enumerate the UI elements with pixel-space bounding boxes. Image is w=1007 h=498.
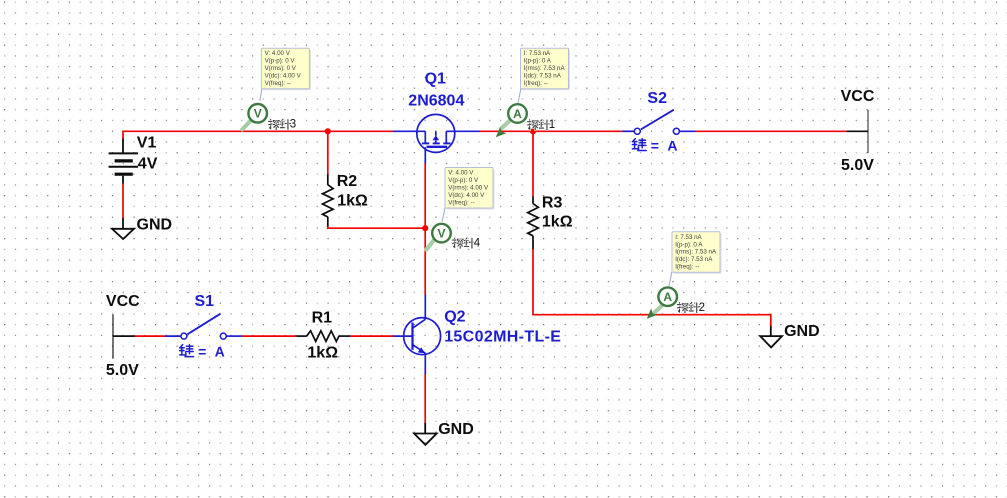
- svg-text:= A: = A: [651, 137, 680, 153]
- svg-text:Q2: Q2: [444, 308, 465, 325]
- wire R3 bottom to GND: [533, 249, 771, 327]
- svg-text:1kΩ: 1kΩ: [337, 193, 368, 210]
- svg-text:V(rms): 4.00 V: V(rms): 4.00 V: [448, 184, 489, 191]
- svg-text:I(dc): 7.53 nA: I(dc): 7.53 nA: [675, 256, 713, 263]
- battery V1: [109, 139, 138, 184]
- svg-text:A: A: [513, 107, 522, 121]
- svg-text:V(dc): 4.00 V: V(dc): 4.00 V: [265, 73, 302, 80]
- wire top rail V1 to Q1: [123, 131, 393, 139]
- svg-text:I(rms): 7.53 nA: I(rms): 7.53 nA: [524, 65, 566, 72]
- label probe 3: [269, 119, 297, 131]
- probe 3 leader line: [260, 89, 262, 101]
- ground under Q2: [414, 423, 437, 445]
- svg-text:R3: R3: [542, 194, 563, 211]
- probe 2 current probe: [647, 287, 677, 318]
- label S2 key A: [632, 137, 680, 153]
- wire node to R3 top: [532, 131, 534, 197]
- svg-text:I(p-p): 0 A: I(p-p): 0 A: [524, 58, 552, 65]
- wire R2 bottom to gate node: [328, 226, 425, 229]
- svg-text:Q1: Q1: [425, 70, 446, 87]
- svg-text:I: 7.53 nA: I: 7.53 nA: [524, 50, 551, 57]
- wire S1 to R1: [242, 335, 297, 337]
- probe 1 current probe: [496, 104, 527, 137]
- svg-text:GND: GND: [137, 217, 173, 234]
- svg-text:R2: R2: [337, 173, 358, 190]
- svg-text:5.0V: 5.0V: [106, 362, 139, 379]
- svg-text:3: 3: [290, 119, 296, 131]
- probe 4 leader line: [442, 208, 445, 222]
- power VCC left: [113, 314, 135, 358]
- node junction R2 top: [325, 128, 331, 134]
- probe 3 value box: [263, 50, 311, 90]
- svg-text:A: A: [663, 290, 672, 304]
- wire S2 to VCC: [696, 130, 847, 132]
- svg-text:V(dc): 4.00 V: V(dc): 4.00 V: [448, 192, 485, 199]
- probe 2 leader line: [669, 272, 672, 286]
- svg-text:I: 7.53 nA: I: 7.53 nA: [675, 234, 702, 241]
- svg-text:4: 4: [474, 237, 481, 249]
- svg-text:V(rms): 0 V: V(rms): 0 V: [265, 65, 297, 72]
- label probe 2: [677, 302, 705, 314]
- svg-text:V(p-p): 0 V: V(p-p): 0 V: [448, 177, 479, 184]
- wire R1 to Q2 base: [350, 335, 393, 337]
- resistor R3: [528, 197, 539, 249]
- svg-text:15C02MH-TL-E: 15C02MH-TL-E: [444, 329, 561, 346]
- svg-text:1kΩ: 1kΩ: [542, 214, 573, 231]
- label probe 4: [453, 237, 481, 249]
- svg-text:V: V: [437, 226, 445, 240]
- wire VCC to S1: [135, 335, 165, 337]
- ground right: [760, 326, 782, 348]
- svg-text:I(freq): --: I(freq): --: [524, 80, 548, 87]
- transistor Q1 MOSFET: [393, 114, 480, 163]
- svg-text:V: 4.00 V: V: 4.00 V: [448, 170, 474, 177]
- wire Q1 source to S2: [480, 130, 622, 132]
- transistor Q2 BJT: [393, 295, 440, 374]
- svg-text:S2: S2: [647, 90, 667, 107]
- svg-text:1kΩ: 1kΩ: [307, 345, 338, 362]
- svg-text:4V: 4V: [138, 155, 158, 172]
- switch S2: [622, 110, 696, 135]
- wire V1 bottom to GND: [122, 183, 124, 218]
- svg-text:I(dc): 7.53 nA: I(dc): 7.53 nA: [524, 73, 562, 80]
- svg-text:R1: R1: [312, 309, 333, 326]
- probe 3 voltage probe: [242, 104, 267, 130]
- svg-text:V(p-p): 0 V: V(p-p): 0 V: [265, 58, 296, 65]
- svg-text:1: 1: [549, 119, 555, 131]
- svg-text:I(p-p): 0 A: I(p-p): 0 A: [675, 241, 703, 248]
- probe 1 value box: [522, 50, 570, 90]
- svg-text:= A: = A: [198, 343, 227, 359]
- power VCC right: [847, 110, 869, 153]
- svg-text:2: 2: [699, 302, 705, 314]
- svg-text:V: 4.00 V: V: 4.00 V: [265, 50, 291, 57]
- probe 4 value box: [447, 169, 495, 210]
- wire node to R2 top: [327, 131, 329, 174]
- svg-text:V1: V1: [137, 135, 157, 152]
- label S1 key A: [180, 343, 228, 359]
- svg-text:GND: GND: [784, 323, 820, 340]
- svg-text:2N6804: 2N6804: [408, 93, 464, 110]
- probe 2 value box: [674, 233, 722, 273]
- probe 1 leader line: [518, 89, 521, 103]
- svg-text:V: V: [254, 107, 262, 121]
- resistor R2: [323, 174, 334, 226]
- svg-text:S1: S1: [195, 293, 215, 310]
- node junction probe1 / R3: [530, 128, 536, 134]
- svg-text:I(freq): --: I(freq): --: [675, 264, 699, 271]
- wire Q1 gate down to node: [424, 163, 426, 228]
- wire node down to Q2 collector: [424, 228, 426, 295]
- switch S1: [165, 314, 242, 339]
- label probe 1: [528, 119, 556, 131]
- svg-text:I(rms): 7.53 nA: I(rms): 7.53 nA: [675, 249, 717, 256]
- wire Q2 emitter to GND: [424, 374, 426, 423]
- svg-text:VCC: VCC: [106, 293, 140, 310]
- svg-text:5.0V: 5.0V: [841, 157, 874, 174]
- probe 4 voltage probe: [426, 224, 450, 250]
- svg-text:V(freq): --: V(freq): --: [448, 199, 474, 206]
- resistor R1: [296, 331, 350, 342]
- svg-text:GND: GND: [438, 421, 474, 438]
- ground under V1: [112, 218, 134, 239]
- svg-text:VCC: VCC: [841, 88, 875, 105]
- node junction gate/R2/collector: [422, 225, 428, 231]
- svg-text:V(freq): --: V(freq): --: [265, 80, 291, 87]
